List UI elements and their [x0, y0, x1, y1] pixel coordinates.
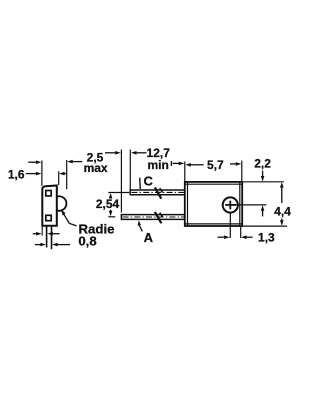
dimension 5,7 right arrow — [230, 162, 241, 166]
lead C break mark — [155, 187, 163, 198]
svg-text:C: C — [144, 174, 154, 189]
extension line body left edge (top) — [41, 161, 43, 186]
svg-text:2,2: 2,2 — [254, 156, 271, 170]
svg-text:min: min — [148, 158, 169, 172]
dimension 1,3 right arrow — [241, 235, 253, 239]
bottom dimension row 1 (lead offset) — [33, 232, 60, 236]
label 4,4 — [274, 205, 291, 219]
body top view (right) outer outline — [185, 182, 242, 226]
label C with leader — [144, 174, 154, 189]
svg-text:2,54: 2,54 — [96, 197, 120, 211]
dimension 1,6 (body thickness) — [26, 172, 67, 176]
dimension 2,2 down arrow — [261, 171, 265, 182]
label 5,7 — [207, 158, 224, 172]
extension line body left edge (top view) — [184, 162, 186, 182]
lead C centerline (dash-dot) — [132, 191, 185, 193]
label Radie 0,8 — [78, 221, 114, 248]
lead pin left view 2 — [51, 226, 53, 250]
svg-text:A: A — [144, 230, 154, 245]
extension line body right edge down — [240, 226, 242, 238]
svg-text:max: max — [84, 161, 108, 175]
dimension arrow at lead A tip — [105, 151, 121, 155]
dimension 12,7 min left arrow — [131, 151, 147, 155]
mounting hole bottom (square) — [46, 215, 51, 220]
lens centerline extension right — [236, 204, 266, 206]
lens dome (side view) — [57, 196, 67, 210]
label 1,3 — [258, 231, 275, 245]
mounting hole top (square) — [46, 191, 51, 196]
lens center cross — [225, 201, 236, 210]
lead A centerline (dash-dot) — [123, 216, 184, 218]
dimension 2,54 tick bottom — [108, 216, 115, 218]
dimension 2,54 down arrow — [109, 210, 113, 217]
extension line body right edge (top view) — [241, 161, 243, 182]
extension line body top edge to right — [242, 181, 284, 183]
body side view (left) — [42, 186, 57, 226]
extension line lead C tip — [129, 150, 131, 190]
label 12,7 min — [147, 146, 171, 172]
extension line body bottom edge to right — [242, 225, 287, 227]
lead A break mark — [155, 212, 163, 223]
dimension 4,4 top arrow — [280, 182, 284, 203]
bottom dimension row 2 (lead width) — [35, 243, 70, 247]
dimension 12,7 min right arrow — [171, 161, 184, 166]
svg-text:4,4: 4,4 — [274, 205, 291, 219]
extension line body right edge (top) — [58, 171, 60, 185]
dimension 2,5 max (body+dome thickness) — [28, 160, 82, 164]
extension line dome tip — [66, 160, 68, 189]
label 2,54 — [96, 197, 120, 211]
lead A (top view) outline — [121, 215, 184, 220]
label 1,6 — [8, 167, 25, 181]
svg-text:1,3: 1,3 — [258, 231, 275, 245]
dimension 4,4 bottom arrow — [280, 219, 284, 226]
label 2,5 max — [84, 151, 108, 176]
dimension 2,54 tick top — [108, 192, 129, 194]
svg-text:0,8: 0,8 — [78, 234, 96, 249]
dimension 1,3 left arrow — [218, 235, 230, 239]
dimension 2,2 up arrow — [261, 205, 265, 216]
svg-text:5,7: 5,7 — [207, 158, 224, 172]
extension stub below body left edge — [41, 226, 43, 236]
extension line lead A tip — [120, 150, 122, 213]
dimension 5,7 left arrow — [185, 163, 203, 167]
dimension 2,54 up arrow — [109, 193, 113, 199]
lead pin left view 1 — [46, 226, 48, 248]
svg-text:1,6: 1,6 — [8, 167, 25, 181]
label A with leader — [144, 230, 154, 245]
lens circle (top view) — [223, 197, 238, 212]
label 2,2 — [254, 156, 271, 170]
lens centerline extension down — [229, 213, 231, 238]
lead C (top view) outline — [130, 190, 185, 195]
leader Radie 0,8 (dome radius) — [61, 210, 77, 226]
body top view inner flange lines — [185, 182, 242, 226]
